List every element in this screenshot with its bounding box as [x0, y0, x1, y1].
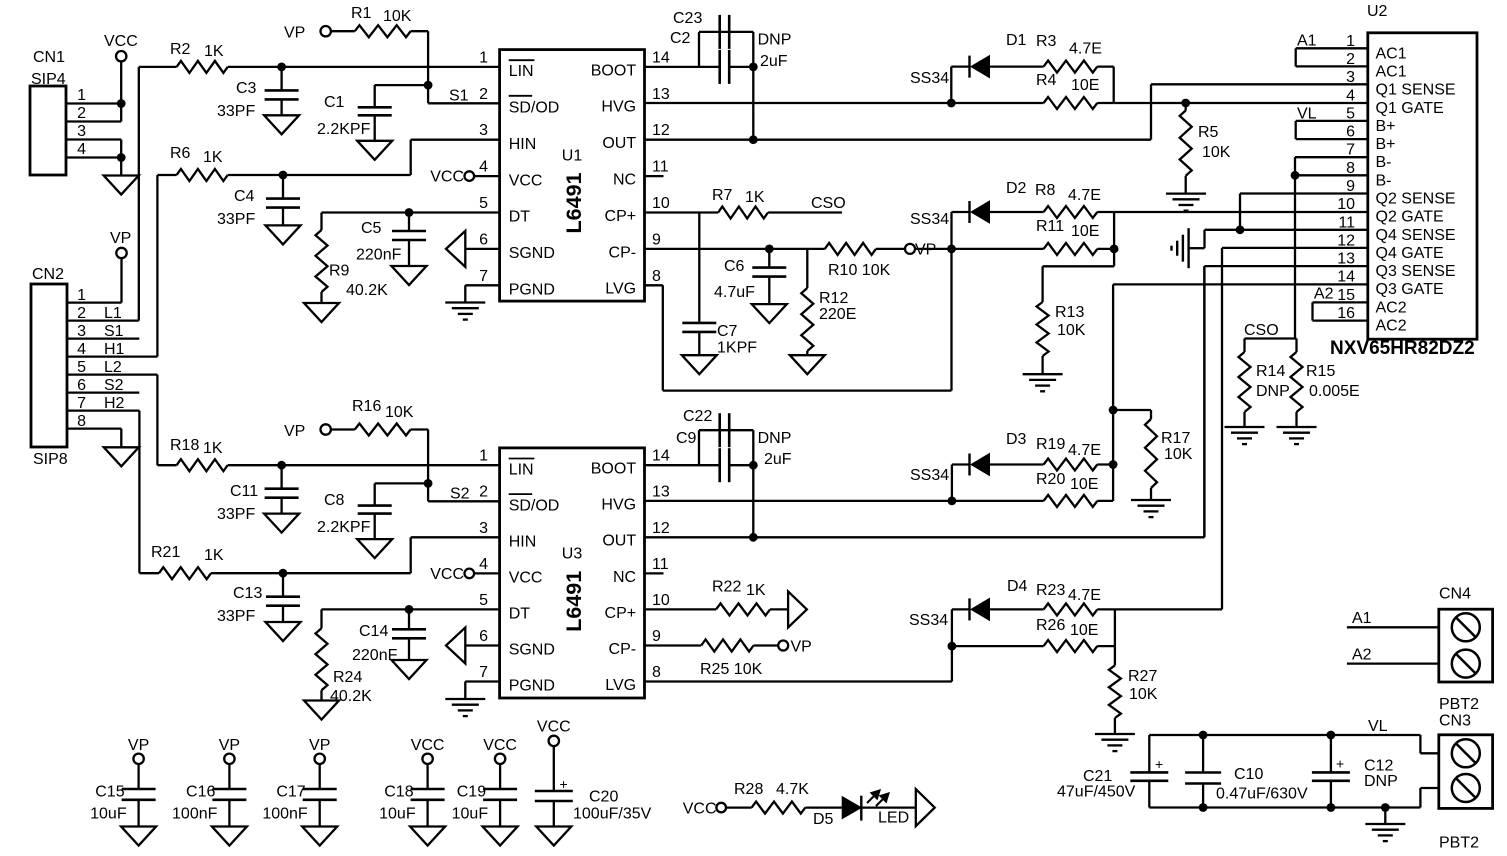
power VP terminal at R16 — [284, 423, 331, 440]
svg-text:2uF: 2uF — [760, 53, 788, 70]
svg-text:2uF: 2uF — [764, 451, 792, 468]
svg-text:10K: 10K — [1057, 322, 1086, 339]
wire net H2 vertical — [139, 411, 159, 574]
ground R14 — [1225, 427, 1265, 444]
wire HIN3 to U3 pin 3 — [279, 537, 500, 577]
ground R12 — [790, 355, 825, 374]
op-amp U1 L6491 gate driver — [479, 49, 670, 301]
svg-text:10K: 10K — [1129, 686, 1158, 703]
wire VCC to CN1 pins 1-2 — [117, 61, 126, 121]
wire CN3 jog bottom — [1420, 788, 1438, 808]
labels C13 — [217, 585, 262, 625]
svg-text:R3: R3 — [1036, 33, 1057, 50]
svg-text:2.2KPF: 2.2KPF — [317, 519, 371, 536]
svg-text:Q1 GATE: Q1 GATE — [1376, 100, 1444, 117]
svg-text:R5: R5 — [1198, 124, 1219, 141]
resistor R20 10E — [952, 460, 1118, 507]
CN2 pin 8 — [67, 413, 121, 430]
svg-text:R7: R7 — [712, 187, 733, 204]
svg-text:0.005E: 0.005E — [1309, 383, 1360, 400]
svg-text:BOOT: BOOT — [591, 461, 637, 478]
resistor R7 1K — [712, 187, 842, 219]
wire LVG U3 pin 8 — [645, 609, 952, 681]
svg-text:L1: L1 — [104, 305, 122, 322]
wire CN3 jog top — [1420, 735, 1438, 753]
CN2 pin 4 net H1 — [67, 341, 157, 358]
svg-text:U1: U1 — [562, 147, 583, 164]
power VP terminal at C15 — [128, 737, 149, 764]
svg-text:L6491: L6491 — [562, 571, 586, 632]
wire LVG U1 pin 8 — [645, 212, 952, 391]
svg-text:+: + — [1155, 756, 1163, 772]
svg-text:10E: 10E — [1070, 622, 1098, 639]
svg-text:AC2: AC2 — [1376, 318, 1407, 335]
svg-text:R25 10K: R25 10K — [700, 661, 763, 678]
wire B- to shunt R15 — [1294, 175, 1296, 338]
svg-text:R2: R2 — [170, 41, 191, 58]
svg-text:HVG: HVG — [601, 99, 636, 116]
svg-text:10K: 10K — [385, 404, 414, 421]
svg-text:DNP: DNP — [1256, 383, 1290, 400]
power VCC terminal at R28 — [683, 801, 726, 818]
svg-text:C18: C18 — [384, 784, 413, 801]
power VP terminal at CN2 — [110, 230, 131, 258]
wire OUT U1 pin 12 to Q1 SENSE — [645, 84, 1368, 139]
U1 pin 11 NC stub — [645, 175, 664, 177]
resistor R12 220E — [801, 249, 856, 355]
svg-text:VCC: VCC — [683, 801, 717, 818]
svg-text:2: 2 — [479, 484, 488, 501]
svg-text:C19: C19 — [457, 784, 486, 801]
wire bootstrap to OUT node — [729, 32, 757, 144]
svg-text:AC1: AC1 — [1376, 63, 1407, 80]
svg-text:HVG: HVG — [601, 497, 636, 514]
svg-text:D1: D1 — [1006, 32, 1027, 49]
svg-text:NC: NC — [613, 172, 636, 189]
resistor R17 10K — [1113, 410, 1193, 500]
resistor R19 4.7E — [1036, 436, 1113, 471]
svg-text:VCC: VCC — [509, 172, 543, 189]
svg-text:LVG: LVG — [605, 677, 636, 694]
resistor R15 0.005E — [1291, 339, 1360, 428]
port CP+ output — [788, 591, 807, 627]
svg-text:10E: 10E — [1070, 476, 1098, 493]
svg-text:47uF/450V: 47uF/450V — [1057, 784, 1136, 801]
power VP terminal at C17 — [309, 737, 330, 764]
resistor R28 4.7K — [726, 781, 842, 814]
svg-text:2: 2 — [77, 105, 86, 122]
svg-text:OUT: OUT — [602, 135, 636, 152]
svg-text:100nF: 100nF — [262, 806, 308, 823]
ground PGND U1 — [445, 303, 485, 320]
wire CP+ U1 pin 10 — [645, 211, 719, 213]
svg-text:D2: D2 — [1006, 180, 1027, 197]
svg-text:R14: R14 — [1256, 363, 1285, 380]
svg-text:R11: R11 — [1036, 218, 1064, 235]
port LED output — [916, 789, 935, 826]
capacitor C7 1KPF — [682, 213, 757, 357]
svg-text:10K: 10K — [383, 8, 412, 25]
wire node S2 to C8 — [375, 483, 428, 505]
resistor R22 1K — [712, 579, 788, 616]
svg-text:R4: R4 — [1036, 72, 1057, 89]
ground Q4 SENSE sideways — [1172, 228, 1189, 268]
wire CP- U1 pin 9 — [645, 245, 825, 254]
connector CN2 SIP8 — [31, 266, 68, 468]
svg-text:C4: C4 — [234, 188, 255, 205]
svg-text:CSO: CSO — [811, 195, 846, 212]
svg-text:R13: R13 — [1055, 304, 1084, 321]
capacitor C11 33PF — [217, 465, 299, 523]
svg-text:U2: U2 — [1367, 3, 1388, 20]
net label CSO — [811, 195, 846, 212]
svg-text:R1: R1 — [351, 5, 372, 22]
svg-text:SS34: SS34 — [909, 612, 948, 629]
svg-text:Q3 GATE: Q3 GATE — [1376, 281, 1444, 298]
svg-text:220E: 220E — [819, 306, 856, 323]
svg-text:C5: C5 — [361, 220, 382, 237]
svg-text:C1: C1 — [324, 94, 345, 111]
svg-text:CP+: CP+ — [605, 208, 637, 225]
resistor R2 1K — [139, 41, 282, 73]
svg-text:C2: C2 — [670, 30, 691, 47]
svg-text:C12: C12 — [1364, 758, 1393, 775]
svg-text:AC1: AC1 — [1376, 45, 1407, 62]
capacitor C18 10uF — [379, 764, 444, 827]
ground R24 — [304, 701, 339, 720]
svg-text:3: 3 — [77, 123, 86, 140]
diode D1 SS34 — [910, 32, 1044, 103]
svg-text:1: 1 — [479, 49, 488, 66]
ground R13 — [1023, 374, 1063, 391]
svg-text:13: 13 — [652, 484, 670, 501]
wire Q2 GATE to U2 pin 10 — [1110, 212, 1368, 266]
svg-text:R19: R19 — [1036, 436, 1065, 453]
svg-text:5: 5 — [77, 359, 86, 376]
svg-text:R24: R24 — [333, 669, 362, 686]
svg-text:C16: C16 — [186, 784, 215, 801]
svg-text:D5: D5 — [813, 811, 834, 828]
wire A1 to CN4 — [1347, 610, 1439, 627]
capacitor C6 4.7uF — [714, 249, 786, 304]
power VCC terminal at C19 — [483, 737, 517, 764]
svg-text:B-: B- — [1376, 154, 1392, 171]
resistor R25 10K — [700, 640, 778, 679]
diode D4 SS34 — [909, 578, 1044, 629]
port SGND U3 pin 6 — [446, 628, 500, 664]
svg-text:HIN: HIN — [509, 136, 537, 153]
svg-text:R12: R12 — [819, 290, 848, 307]
svg-text:SGND: SGND — [509, 642, 555, 659]
svg-text:R17: R17 — [1161, 430, 1190, 447]
svg-text:4.7E: 4.7E — [1068, 442, 1101, 459]
svg-text:C11: C11 — [230, 483, 258, 500]
svg-text:AC2: AC2 — [1376, 299, 1407, 316]
wire PGND U3 pin 7 — [465, 682, 499, 700]
ground R5 — [1166, 194, 1206, 211]
svg-text:2: 2 — [77, 305, 86, 322]
svg-text:LED: LED — [878, 810, 909, 827]
power VP terminal at C16 — [219, 737, 240, 764]
ground R17 — [1131, 500, 1171, 517]
svg-text:BOOT: BOOT — [591, 62, 637, 79]
svg-text:C3: C3 — [236, 80, 257, 97]
svg-text:R23: R23 — [1036, 582, 1065, 599]
resistor R23 4.7E — [1036, 582, 1115, 615]
svg-text:R8: R8 — [1035, 182, 1056, 199]
capacitor C3 33PF — [217, 67, 299, 120]
svg-text:10E: 10E — [1071, 223, 1099, 240]
node S2 junction — [424, 479, 470, 503]
svg-text:CN2: CN2 — [32, 266, 64, 283]
svg-text:SS34: SS34 — [910, 70, 949, 87]
wire CN2 pin 8 to ground — [120, 429, 122, 448]
svg-text:C10: C10 — [1234, 766, 1263, 783]
svg-text:D4: D4 — [1007, 578, 1028, 595]
svg-text:0.47uF/630V: 0.47uF/630V — [1216, 786, 1308, 803]
CN2 pin 6 net S2 — [67, 377, 139, 394]
wire Q4 SENSE U2 pin 11 — [1189, 230, 1368, 248]
svg-text:14: 14 — [1337, 269, 1355, 286]
svg-text:VCC: VCC — [537, 719, 571, 736]
ground C4 — [266, 225, 301, 244]
CN2 pin 5 net L2 — [67, 359, 157, 376]
svg-text:3: 3 — [77, 323, 86, 340]
svg-text:100uF/35V: 100uF/35V — [573, 806, 652, 823]
svg-text:VP: VP — [309, 737, 330, 754]
wire CP+ U3 pin 10 — [645, 608, 717, 610]
svg-text:PBT2: PBT2 — [1439, 835, 1479, 852]
wire node S1 to U1 pin 2 — [428, 85, 500, 103]
ground PGND U3 — [445, 699, 485, 716]
svg-text:VP: VP — [128, 737, 149, 754]
svg-text:VCC: VCC — [104, 33, 138, 50]
wire VL ground tap — [1381, 803, 1390, 824]
svg-text:4.7K: 4.7K — [776, 781, 809, 798]
svg-text:DT: DT — [509, 606, 531, 623]
svg-text:4.7E: 4.7E — [1068, 187, 1101, 204]
resistor R1 10K — [331, 5, 428, 37]
CN2 pin 3 net S1 — [67, 323, 139, 340]
svg-text:4.7E: 4.7E — [1069, 41, 1102, 58]
svg-text:A1: A1 — [1352, 610, 1372, 627]
svg-text:Q2 SENSE: Q2 SENSE — [1376, 191, 1456, 208]
svg-text:L2: L2 — [104, 359, 122, 376]
svg-text:7: 7 — [479, 664, 488, 681]
svg-text:220nF: 220nF — [356, 247, 402, 264]
transistor module U2 NXV65HR82DZ2 — [1330, 3, 1477, 359]
wire VP to CN2 pin 1 — [120, 258, 122, 302]
svg-text:6: 6 — [479, 231, 488, 248]
svg-text:R16: R16 — [352, 398, 381, 415]
svg-text:14: 14 — [652, 49, 670, 66]
net label VL bracket U2 pins 5-6 — [1296, 106, 1368, 140]
net label OVP upper — [905, 242, 936, 259]
svg-text:4.7uF: 4.7uF — [714, 284, 755, 301]
svg-text:1: 1 — [479, 448, 488, 465]
svg-text:CSO: CSO — [1244, 322, 1279, 339]
svg-text:4: 4 — [77, 141, 86, 158]
svg-text:4: 4 — [77, 341, 86, 358]
svg-text:3: 3 — [479, 122, 488, 139]
svg-text:R10 10K: R10 10K — [828, 262, 891, 279]
power VCC at U1 pin 4 — [430, 169, 499, 186]
wire B- bracket U2 pins 7-8 — [1291, 157, 1368, 180]
resistor R16 10K — [331, 398, 428, 436]
svg-text:4: 4 — [479, 159, 488, 176]
svg-text:OUT: OUT — [602, 533, 636, 550]
svg-text:VCC: VCC — [509, 570, 543, 587]
resistor R4 10E — [951, 72, 1113, 109]
svg-text:5: 5 — [479, 592, 488, 609]
svg-text:DNP: DNP — [1364, 773, 1398, 790]
svg-text:LVG: LVG — [605, 281, 636, 298]
power VCC terminal at C20 — [537, 719, 571, 747]
svg-text:CN4: CN4 — [1439, 586, 1471, 603]
svg-text:220nF: 220nF — [352, 647, 398, 664]
svg-text:10: 10 — [652, 195, 670, 212]
ground C14 — [392, 660, 427, 679]
CN2 pin 1 — [67, 287, 122, 304]
svg-text:40.2K: 40.2K — [346, 282, 388, 299]
svg-text:VP: VP — [284, 25, 305, 42]
power VCC terminal — [104, 33, 138, 61]
resistor R11 10E — [952, 218, 1115, 255]
capacitor C15 10uF — [90, 764, 155, 827]
svg-text:NC: NC — [613, 569, 636, 586]
ground C16 — [212, 827, 247, 846]
svg-text:CP-: CP- — [609, 641, 637, 658]
svg-text:8: 8 — [652, 664, 661, 681]
svg-text:1K: 1K — [203, 440, 223, 457]
CN2 pin 7 net H2 — [67, 395, 139, 412]
U3 pin 11 NC stub — [645, 572, 664, 574]
svg-text:S1: S1 — [449, 88, 469, 105]
ground VL rail — [1365, 824, 1405, 841]
svg-text:4: 4 — [479, 556, 488, 573]
capacitor C21 47uF/450V — [1057, 735, 1168, 808]
connector CN1 SIP4 — [30, 49, 66, 175]
diode D3 SS34 — [910, 431, 1044, 501]
wire LIN1 to U1 pin 1 — [277, 63, 499, 72]
capacitor C16 100nF — [172, 764, 246, 827]
svg-text:10K: 10K — [1164, 446, 1193, 463]
svg-text:9: 9 — [652, 231, 661, 248]
capacitor C22 DNP — [683, 408, 791, 447]
svg-text:Q4 GATE: Q4 GATE — [1376, 245, 1444, 262]
svg-text:1K: 1K — [204, 43, 224, 60]
svg-text:CN1: CN1 — [33, 49, 65, 66]
svg-text:B+: B+ — [1376, 118, 1396, 135]
ground C5 — [392, 266, 427, 285]
capacitor C17 100nF — [262, 764, 336, 827]
svg-text:VCC: VCC — [483, 737, 517, 754]
svg-text:SIP8: SIP8 — [33, 451, 68, 468]
svg-text:CP-: CP- — [609, 244, 637, 261]
svg-text:R20: R20 — [1036, 471, 1065, 488]
svg-text:SS34: SS34 — [910, 467, 949, 484]
wire node S1 to C1 — [375, 85, 428, 107]
svg-text:10uF: 10uF — [90, 806, 127, 823]
svg-text:10uF: 10uF — [379, 806, 416, 823]
wire HIN1 to U1 pin 3 — [279, 140, 500, 180]
ground C11 — [264, 514, 299, 533]
wire VL rail bottom — [1149, 806, 1420, 808]
wire DT U3 pin 5 — [322, 605, 500, 614]
wire PGND U1 pin 7 — [465, 285, 499, 302]
svg-text:+: + — [1336, 756, 1344, 772]
svg-text:5: 5 — [479, 195, 488, 212]
svg-text:13: 13 — [652, 86, 670, 103]
ground C8 — [357, 539, 392, 558]
svg-text:NXV65HR82DZ2: NXV65HR82DZ2 — [1330, 338, 1475, 359]
resistor R13 10K — [1037, 266, 1115, 374]
power VCC terminal at C18 — [411, 737, 445, 764]
capacitor C1 2.2KPF — [317, 94, 392, 141]
ground C1 — [357, 141, 392, 160]
svg-text:VP: VP — [219, 737, 240, 754]
svg-text:Q3 SENSE: Q3 SENSE — [1376, 263, 1456, 280]
wire LED to port — [861, 806, 916, 808]
svg-text:Q1 SENSE: Q1 SENSE — [1376, 82, 1456, 99]
wire R16 to node S2 — [427, 430, 429, 484]
svg-text:C9: C9 — [676, 430, 697, 447]
wire OUT U3 pin 12 to Q3 SENSE — [645, 266, 1205, 537]
net label OVP lower — [778, 639, 812, 656]
wire node S2 to U3 pin 2 — [428, 483, 500, 501]
svg-text:A2: A2 — [1352, 647, 1372, 664]
svg-text:4: 4 — [1346, 87, 1355, 104]
svg-text:R21: R21 — [151, 544, 180, 561]
resistor R24 40.2K — [316, 609, 373, 705]
net label A1 bracket U2 pins 1-2 — [1296, 33, 1368, 67]
capacitor C12 DNP — [1312, 731, 1398, 812]
svg-text:S2: S2 — [104, 377, 124, 394]
wire HVG U1 pin 13 — [645, 99, 956, 108]
svg-text:2.2KPF: 2.2KPF — [317, 121, 371, 138]
svg-text:3: 3 — [1346, 69, 1355, 86]
wire net L2 vertical — [157, 375, 176, 466]
svg-text:R15: R15 — [1306, 363, 1335, 380]
CN1 pin 3 — [66, 123, 121, 140]
svg-text:C22: C22 — [683, 408, 712, 425]
ground CN1 — [104, 176, 139, 195]
power VP terminal at R1 — [284, 25, 331, 42]
capacitor C23 DNP — [673, 10, 791, 49]
svg-text:33PF: 33PF — [217, 103, 255, 120]
ground C17 — [302, 827, 337, 846]
svg-text:6: 6 — [77, 377, 86, 394]
svg-text:SS34: SS34 — [910, 211, 949, 228]
svg-text:14: 14 — [652, 448, 670, 465]
svg-text:R22: R22 — [712, 579, 741, 596]
ground C19 — [483, 827, 518, 846]
svg-text:1KPF: 1KPF — [717, 340, 757, 357]
ground C13 — [266, 622, 301, 641]
svg-text:7: 7 — [479, 268, 488, 285]
wire Q3 SENSE U2 pin 13 — [1204, 266, 1367, 537]
wire bootstrap3 to OUT node — [729, 430, 757, 541]
wire CP- U3 pin 9 — [645, 644, 702, 646]
svg-text:100nF: 100nF — [172, 806, 218, 823]
svg-text:LIN: LIN — [509, 461, 534, 478]
svg-text:C8: C8 — [324, 492, 345, 509]
wire net H1 vertical — [156, 175, 158, 357]
ground C15 — [121, 827, 156, 846]
CN1 pin 4 — [66, 141, 121, 158]
svg-text:DT: DT — [509, 209, 531, 226]
resistor R27 10K — [1109, 665, 1158, 734]
